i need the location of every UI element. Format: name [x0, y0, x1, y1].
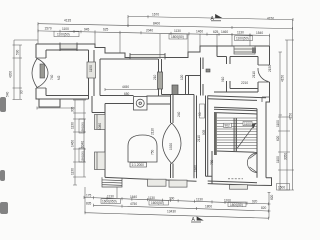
svg-text:4150: 4150 [289, 113, 293, 120]
room under stairs [211, 151, 213, 177]
svg-text:1100: 1100 [276, 156, 280, 163]
svg-text:175: 175 [86, 194, 92, 198]
right dims [279, 52, 283, 190]
svg-text:1100(50): 1100(50) [57, 32, 70, 36]
svg-text:1800(50): 1800(50) [171, 35, 184, 39]
divider room2-hall [159, 59, 162, 96]
svg-text:590: 590 [16, 49, 20, 55]
stair landing bottom [217, 151, 257, 152]
DIMENSION LINES [13, 15, 295, 220]
window top-center [130, 55, 165, 58]
svg-text:625: 625 [103, 28, 109, 32]
svg-text:4750: 4750 [130, 202, 137, 206]
left-center dims [75, 100, 84, 185]
svg-text:4200: 4200 [9, 71, 13, 78]
top row2 [38, 31, 270, 36]
svg-text:2150: 2150 [268, 65, 272, 72]
section marker A bottom [191, 217, 203, 222]
svg-text:1540: 1540 [256, 31, 263, 35]
outer wall top [36, 44, 270, 58]
boxed rotated stair label [200, 104, 205, 118]
corridor walls [194, 95, 212, 184]
room1 inner walls [36, 50, 89, 99]
svg-text:2110: 2110 [151, 128, 155, 135]
table living [128, 135, 157, 162]
divider room1-room2 [89, 50, 95, 99]
scan smudges [0, 97, 8, 214]
boxed labels top [54, 31, 253, 40]
svg-text:4150: 4150 [281, 75, 285, 82]
svg-text:1460: 1460 [71, 140, 75, 147]
svg-text:6040: 6040 [81, 141, 85, 148]
svg-text:945: 945 [84, 27, 90, 31]
left dim texts rotated [6, 49, 85, 175]
svg-text:625: 625 [213, 30, 219, 34]
svg-text:1160: 1160 [194, 165, 198, 172]
window top-left [60, 44, 77, 49]
kitchen inner walls [100, 59, 171, 96]
svg-text:90: 90 [198, 112, 202, 116]
outer wall left [36, 44, 60, 99]
svg-text:1130: 1130 [196, 198, 203, 202]
interior tiny labels [50, 65, 272, 172]
svg-text:820: 820 [270, 194, 274, 200]
svg-text:1800(50): 1800(50) [230, 203, 243, 207]
svg-text:750: 750 [151, 149, 155, 155]
west wall living section [92, 96, 105, 177]
svg-text:120: 120 [180, 74, 184, 80]
door right wall arc [258, 65, 270, 82]
bottom row C [94, 204, 269, 213]
svg-text:13430: 13430 [167, 209, 176, 213]
svg-text:1100: 1100 [276, 120, 280, 127]
left lower connector [37, 107, 75, 110]
stair boxed label [224, 123, 232, 127]
svg-text:1900(50): 1900(50) [80, 122, 84, 133]
top row0 [128, 16, 293, 19]
vestibule walls right [208, 92, 266, 100]
stair stringer bar left [214, 113, 217, 155]
extension lines top [38, 17, 270, 59]
svg-text:1130: 1130 [71, 122, 75, 129]
svg-text:4135: 4135 [64, 19, 71, 23]
stairs treads [217, 118, 257, 148]
svg-text:1900(50): 1900(50) [80, 151, 84, 162]
annex windows west [95, 115, 106, 170]
section marker A top [211, 15, 221, 21]
svg-text:1100(50): 1100(50) [236, 37, 249, 41]
stair arrow [237, 124, 256, 149]
svg-text:1670: 1670 [152, 13, 159, 17]
svg-text:1130: 1130 [237, 30, 244, 34]
hall bottom wall [162, 94, 195, 96]
svg-text:240: 240 [177, 111, 181, 117]
hall interior walls [186, 58, 204, 96]
dim line 4450 kitchen [105, 88, 159, 91]
svg-text:1460: 1460 [221, 30, 228, 34]
top row1 [38, 24, 293, 29]
svg-text:1130: 1130 [174, 29, 181, 33]
dashed hidden line [228, 178, 243, 180]
lens door wall [171, 95, 174, 179]
right wall notch [262, 97, 270, 102]
lens door living-corridor [163, 123, 182, 164]
svg-text:902: 902 [225, 124, 231, 128]
left boxed rotated [79, 119, 85, 162]
svg-text:910: 910 [221, 76, 225, 82]
svg-text:2040: 2040 [146, 29, 153, 33]
svg-text:1150: 1150 [89, 65, 93, 72]
svg-text:300: 300 [169, 197, 175, 201]
svg-text:4450: 4450 [122, 85, 129, 89]
bottom row D [85, 211, 269, 220]
right dim texts rotated [270, 75, 293, 200]
svg-text:1600(50): 1600(50) [151, 201, 164, 205]
svg-text:1:1.2000: 1:1.2000 [132, 163, 145, 167]
stair top lines [214, 107, 257, 114]
svg-text:780: 780 [210, 159, 214, 165]
svg-text:620: 620 [276, 135, 280, 141]
svg-text:1600(950): 1600(950) [102, 200, 117, 204]
door room1-room2 opening [87, 62, 96, 78]
svg-text:1100: 1100 [62, 27, 69, 31]
svg-text:1800: 1800 [205, 204, 212, 208]
svg-text:1130: 1130 [148, 196, 155, 200]
bottom row A [84, 197, 269, 204]
svg-text:1080: 1080 [98, 123, 102, 130]
scale box [130, 163, 147, 168]
svg-text:920: 920 [252, 200, 258, 204]
svg-text:210: 210 [153, 74, 157, 80]
svg-text:8400: 8400 [153, 21, 160, 25]
svg-text:1460: 1460 [196, 30, 203, 34]
svg-text:820: 820 [261, 206, 267, 210]
south steps porch [102, 177, 122, 187]
top-right room [217, 46, 258, 92]
window top-right [234, 46, 255, 54]
svg-text:650: 650 [124, 92, 130, 96]
svg-text:1570: 1570 [45, 27, 52, 31]
svg-text:1130: 1130 [71, 168, 75, 175]
svg-text:4150: 4150 [267, 16, 274, 20]
svg-text:1500: 1500 [278, 186, 285, 190]
svg-text:90: 90 [20, 90, 24, 94]
left dims [13, 40, 39, 100]
svg-text:2210: 2210 [241, 81, 248, 85]
svg-text:1920: 1920 [169, 143, 173, 150]
svg-text:2110: 2110 [252, 71, 256, 78]
svg-text:1100: 1100 [244, 122, 251, 126]
boxed label bottom right [277, 184, 290, 191]
svg-text:M2: M2 [57, 75, 61, 80]
svg-text:740: 740 [50, 74, 54, 80]
stair right wall inner [256, 109, 258, 178]
svg-text:2110: 2110 [197, 135, 201, 142]
living top wall [105, 103, 171, 106]
svg-text:540: 540 [6, 91, 10, 97]
svg-text:905: 905 [202, 129, 206, 135]
stove square living [134, 97, 148, 111]
stair stringer bar mid [234, 118, 237, 151]
south windows [148, 179, 248, 189]
outer wall right [208, 46, 272, 186]
svg-text:3050: 3050 [284, 153, 288, 160]
extension bottom [85, 187, 269, 218]
chimney hall [172, 85, 178, 95]
south wall main line [105, 177, 197, 181]
chimney small [206, 69, 210, 72]
svg-text:835: 835 [86, 201, 92, 205]
fan stove corner [247, 153, 257, 173]
door room2-hall [158, 72, 163, 89]
svg-text:1130: 1130 [107, 195, 114, 199]
svg-text:305: 305 [71, 106, 75, 112]
door left double lens [32, 58, 48, 88]
left step below room1 [39, 99, 60, 107]
svg-text:1640: 1640 [130, 195, 137, 199]
